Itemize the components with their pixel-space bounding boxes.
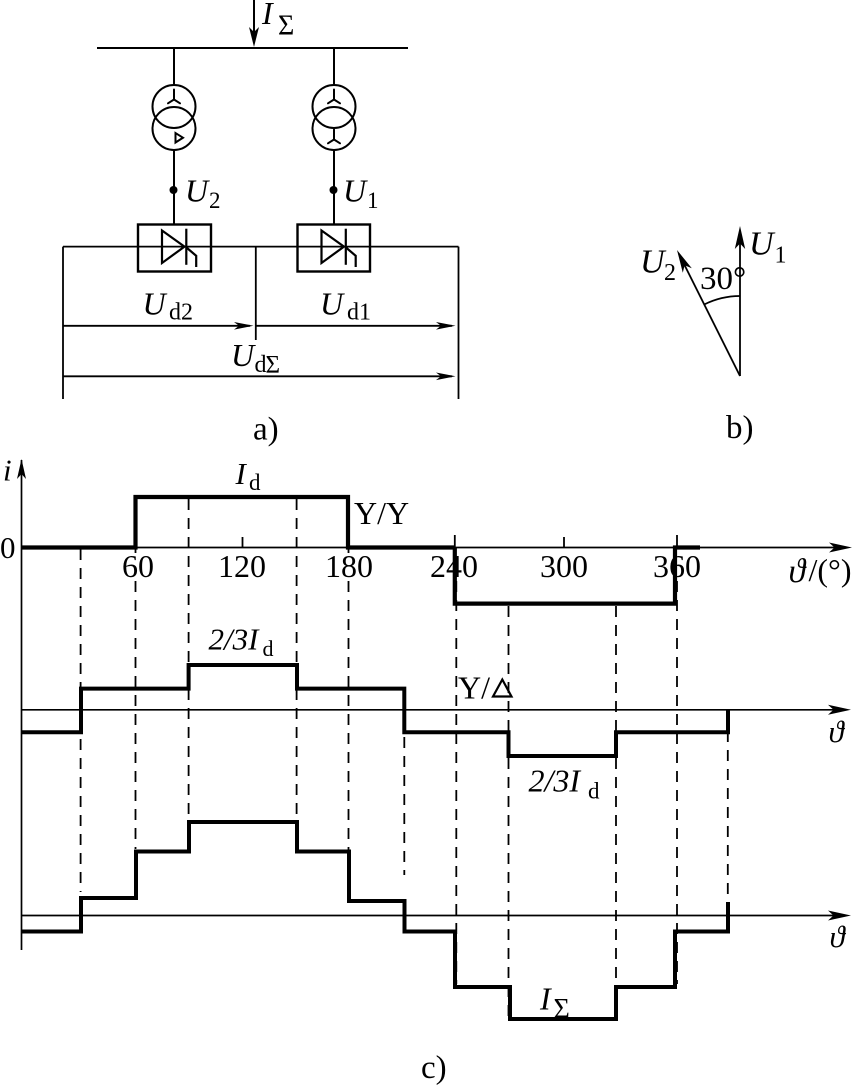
svg-text:300: 300 (540, 548, 588, 584)
svg-text:30°: 30° (700, 261, 746, 297)
svg-text:Y/Y: Y/Y (354, 495, 409, 531)
svg-text:U: U (640, 244, 667, 281)
svg-text:d2: d2 (169, 300, 193, 326)
svg-text:360: 360 (653, 548, 701, 584)
svg-text:/(°): /(°) (809, 552, 852, 588)
svg-text:Σ: Σ (278, 11, 294, 42)
svg-text:c): c) (421, 1050, 447, 1086)
svg-text:Y/: Y/ (458, 670, 490, 706)
svg-text:U: U (185, 173, 210, 209)
svg-text:d: d (249, 470, 261, 495)
svg-text:U: U (749, 226, 776, 263)
svg-text:a): a) (253, 412, 279, 448)
svg-text:I: I (235, 456, 248, 491)
svg-text:2: 2 (664, 260, 676, 286)
svg-text:U: U (343, 173, 368, 209)
svg-text:i: i (3, 453, 12, 488)
svg-text:Σ: Σ (266, 352, 281, 379)
svg-text:2: 2 (209, 188, 221, 213)
svg-text:I: I (539, 981, 552, 1017)
svg-text:60: 60 (122, 548, 154, 584)
svg-text:b): b) (726, 410, 754, 446)
svg-text:Σ: Σ (554, 994, 570, 1025)
svg-text:1: 1 (775, 243, 787, 269)
svg-text:U: U (143, 286, 168, 322)
svg-text:U: U (231, 337, 256, 373)
svg-text:ϑ: ϑ (830, 919, 847, 954)
svg-text:d: d (588, 779, 600, 804)
svg-text:0: 0 (0, 530, 16, 565)
svg-text:ϑ: ϑ (829, 714, 846, 749)
svg-text:d1: d1 (347, 300, 371, 326)
svg-text:2/3I: 2/3I (529, 763, 582, 799)
svg-text:1: 1 (367, 188, 379, 213)
svg-text:ϑ: ϑ (789, 553, 808, 590)
svg-text:I: I (261, 0, 274, 31)
svg-text:U: U (320, 286, 345, 322)
svg-text:240: 240 (430, 548, 478, 584)
svg-text:2/3I: 2/3I (209, 622, 261, 657)
svg-text:120: 120 (218, 548, 266, 584)
svg-text:d: d (263, 636, 274, 661)
svg-text:180: 180 (325, 548, 373, 584)
